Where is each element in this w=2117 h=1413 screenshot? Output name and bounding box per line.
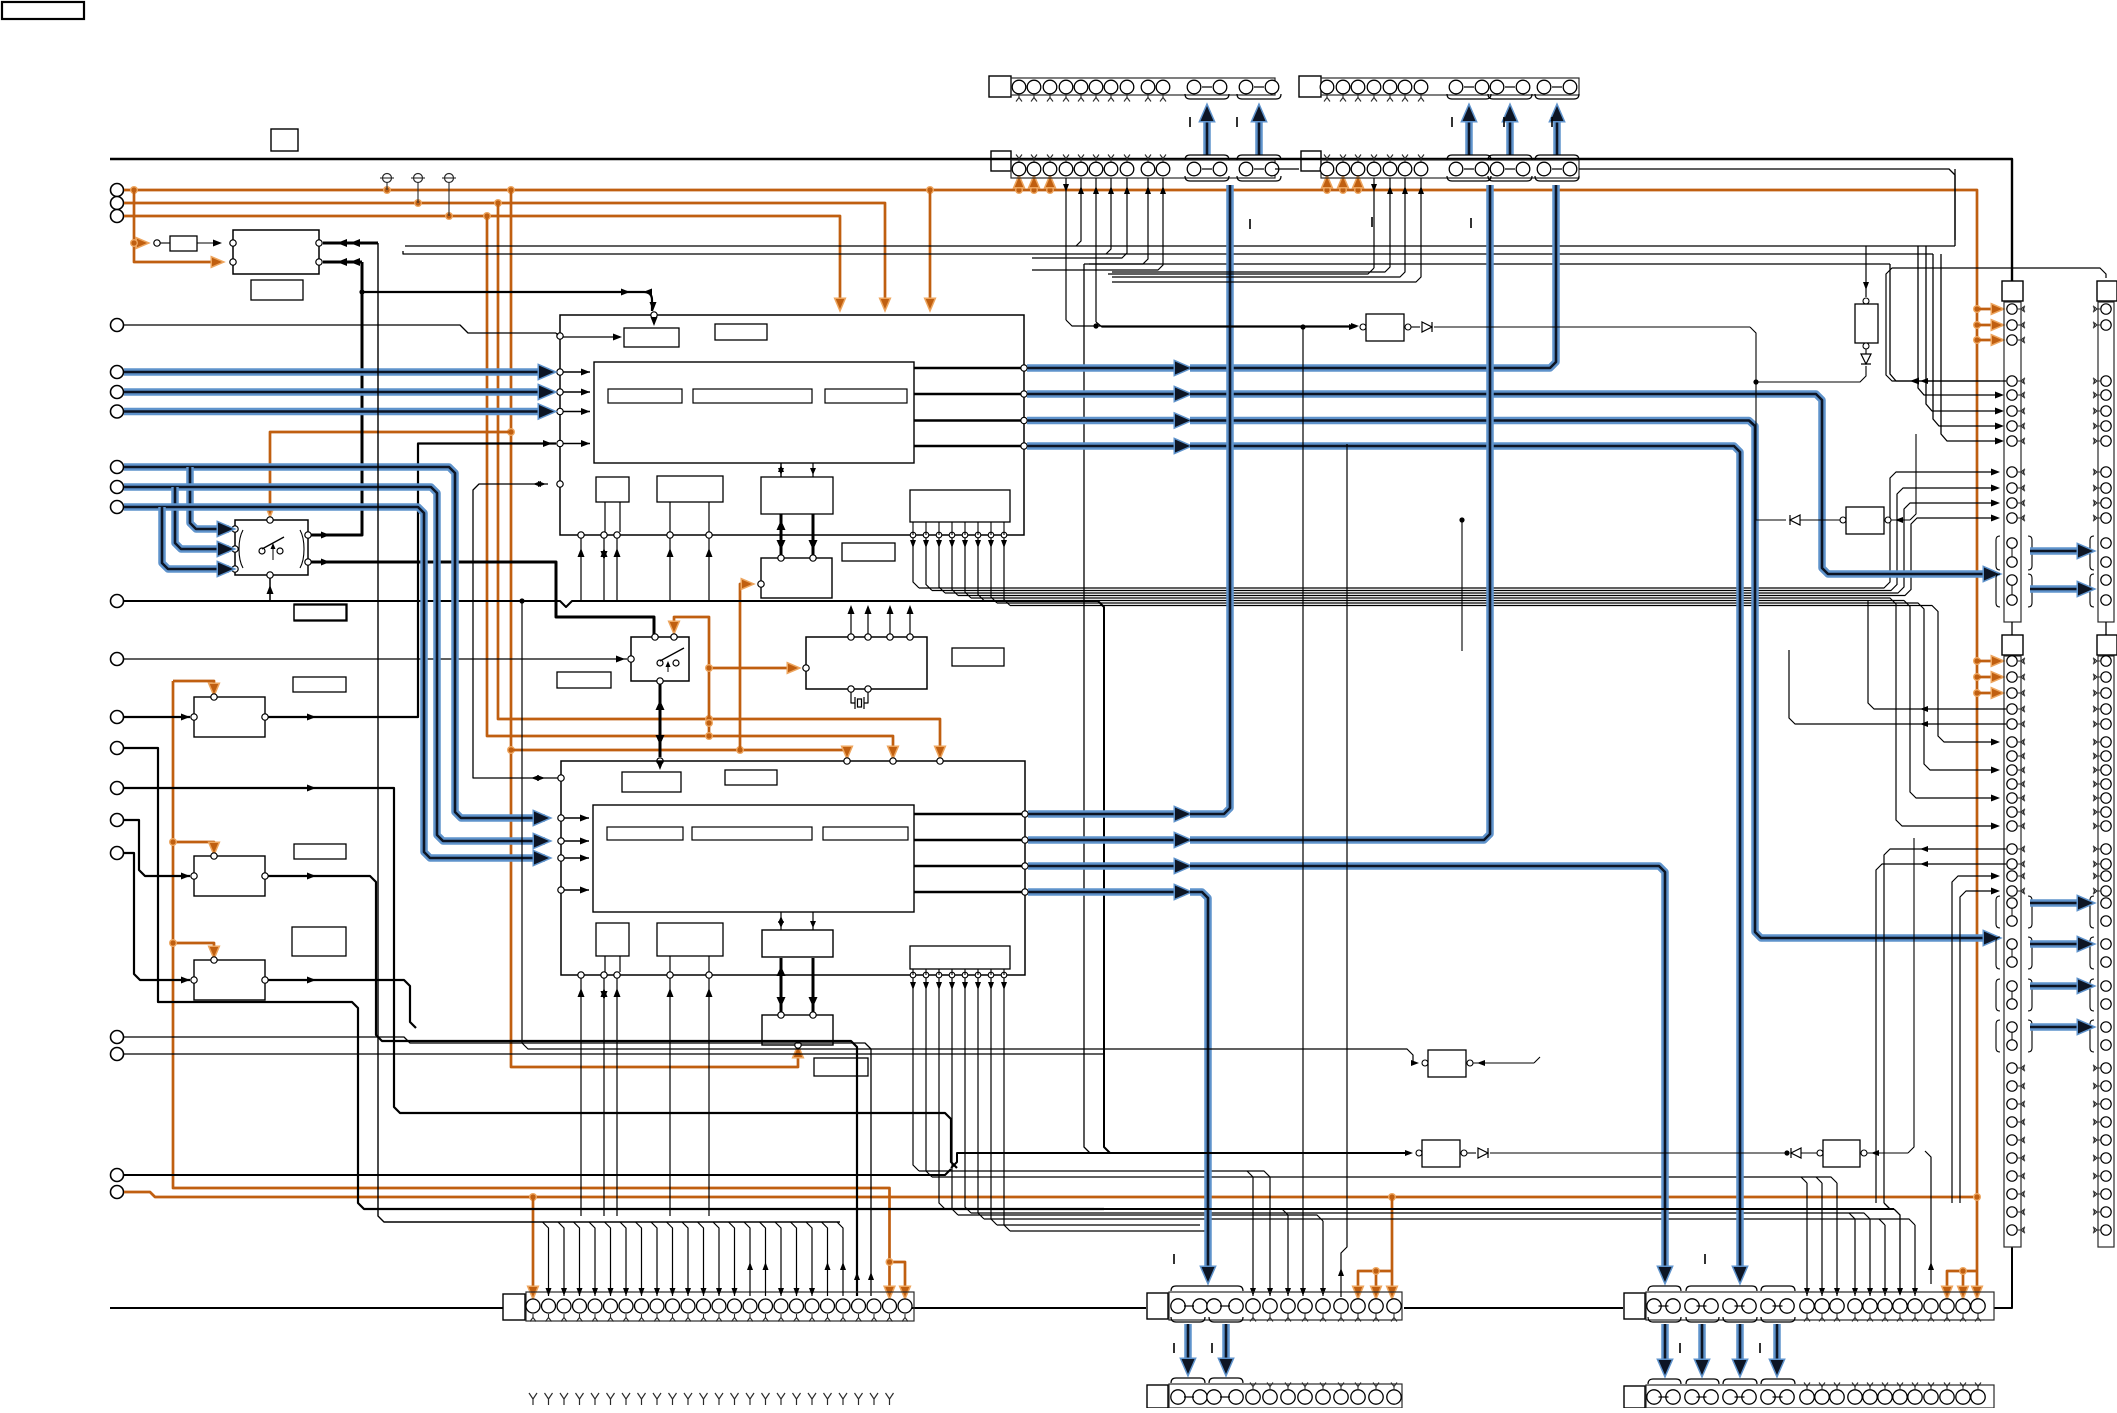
wire blue IC1 out3 to CN-A low <box>1027 414 1999 945</box>
inverter U9 with diode D6 <box>1791 838 1914 1167</box>
wire blue IN6 branch S1c <box>124 507 549 865</box>
IC2 pins left <box>558 815 589 894</box>
label A1 <box>293 677 346 692</box>
terminal T4 <box>111 319 124 332</box>
terminal T17 <box>111 847 124 860</box>
connector CN102 (top row1 group B) <box>1299 76 1579 102</box>
wire relay out2 <box>321 258 362 535</box>
terminal T19 <box>111 1048 124 1061</box>
wire dial link to IC1 <box>359 289 656 312</box>
IC1 box C <box>596 477 629 532</box>
relay K1 <box>230 230 322 274</box>
IC1 bottom edge pins <box>578 532 713 600</box>
IC2 box D <box>657 923 723 972</box>
wire A3 out <box>268 977 416 1029</box>
IC2 wide box pin fan <box>910 969 1918 1296</box>
wire CN202 drop lines <box>1108 178 1424 282</box>
IC2 pins top <box>844 758 943 764</box>
amp box A1 <box>191 694 268 737</box>
IC2 pin bidir <box>473 481 564 781</box>
wire T13 to A1 <box>124 714 190 721</box>
terminal T1 <box>111 184 124 197</box>
terminal T14 <box>111 742 124 755</box>
IC1 box B <box>715 324 767 340</box>
terminal T6 <box>111 386 124 399</box>
connector CN-BM1 (bottom middle row1) <box>1147 1286 1402 1322</box>
IC1 box E dsp <box>761 463 833 514</box>
wire CN201 drop lines <box>1032 178 1359 329</box>
level box U5 with diode D2 <box>1855 246 1878 372</box>
wire CN-A out left y709 <box>1789 600 2006 727</box>
wire CN-A out left y381 <box>1886 268 2106 384</box>
wire S1 out2 to mux S2 <box>311 559 654 635</box>
test point TP3 <box>442 174 456 217</box>
wire blue IN2 to IC1 <box>124 386 554 399</box>
IC1 wide box F <box>910 490 1010 522</box>
wire thick right elbow <box>1104 1203 1903 1296</box>
wire blue CN-BR links <box>1659 1324 1784 1375</box>
terminal T3 <box>111 210 124 223</box>
terminal T7 <box>111 405 124 418</box>
terminal T15 <box>111 782 124 795</box>
resistor R1 <box>154 236 222 251</box>
wire bus y264 <box>1084 264 2000 1153</box>
tick marks <box>1174 117 1760 1353</box>
wire CN-BR up line <box>1925 1151 1934 1284</box>
IC1 core <box>594 362 914 463</box>
wire T15 long path <box>124 785 957 1169</box>
amp box A2 <box>191 853 268 896</box>
wire orange vertical V3 feed H2 <box>487 216 897 757</box>
mux S2 <box>628 634 689 684</box>
IC2 box C <box>596 923 629 972</box>
connector CN202 (top row2 group B) <box>1301 151 1955 240</box>
wire T19 path <box>124 1053 1104 1055</box>
terminal T21 <box>111 1186 124 1199</box>
wire S1 common <box>267 578 274 601</box>
connector CN-BL (bottom left) <box>503 1292 914 1322</box>
terminal T18 <box>111 1031 124 1044</box>
test point TP1 <box>380 174 394 191</box>
label modem <box>814 1058 868 1076</box>
connector CN-A lower <box>1996 635 2032 1247</box>
wire blue IC1 out1 to CN row2 <box>1027 185 1556 375</box>
wire blue IC2 out3 to CN-BR <box>1028 860 1672 1283</box>
wire bus y254 <box>403 251 2004 445</box>
wire T17 to A3 <box>124 853 190 984</box>
IC2 main block <box>561 761 1025 975</box>
inverter U4 with diode D1 <box>1093 314 1866 514</box>
wire CN-A out left y849 <box>1876 846 2006 1203</box>
IC1 pins left <box>557 369 590 448</box>
Y pigtails row under CN-BL <box>529 1393 894 1405</box>
connector CN101 (top row1 group A) <box>989 76 1281 102</box>
wire T11 bus <box>124 601 1110 1153</box>
label S2 <box>557 672 611 688</box>
wire blue IN3 to IC1 <box>124 405 554 418</box>
wire blue IC1 out4 to CN-BR <box>1027 440 1747 1283</box>
label S1 <box>294 604 347 621</box>
inverter U7 with diode D4 (y1063) <box>519 598 1540 1077</box>
connector CN-BR2 (bottom right row2) <box>1624 1379 1994 1408</box>
label K1 <box>251 280 303 300</box>
IC2 pins right <box>914 811 1028 895</box>
terminal T8 <box>111 461 124 474</box>
wire blue IC2 out1 to CN row2 A <box>1028 185 1230 821</box>
terminal T11 <box>111 595 124 608</box>
label S1 upper <box>294 605 346 620</box>
wire orange branch to relay K1 <box>130 190 222 266</box>
DAA U3 <box>803 634 927 692</box>
wire orange branch to S1 <box>266 428 515 515</box>
terminal T5 <box>111 366 124 379</box>
terminal T2 <box>111 197 124 210</box>
wire orange to mux S2 and DAA <box>670 617 798 740</box>
wire blue IC1 out2 to CN-A <box>1027 388 1999 581</box>
wire orange line L1 (tip/ring bus) <box>124 177 2002 1297</box>
wire bundle to CN-BL <box>378 243 846 1296</box>
IC1 wide box pin fan <box>910 469 2000 830</box>
label A2 <box>294 844 346 859</box>
title box <box>2 2 84 19</box>
connector CN-BM2 (bottom middle row2) <box>1147 1378 1402 1408</box>
wire blue IN4 branch S1a <box>124 467 549 825</box>
inverter U8 with diode D5 (y1153) <box>951 1140 1790 1168</box>
connector CN-BR1 (bottom right row1) <box>1624 1286 1994 1322</box>
terminal T16 <box>111 814 124 827</box>
IC1 clock box <box>758 514 832 598</box>
switch S1 hook relay <box>232 517 311 578</box>
label U3 <box>952 648 1004 666</box>
IC2 box E <box>762 912 833 957</box>
wire blue IC2 out2 to CN row2 B <box>1028 185 1490 847</box>
terminal T20 <box>111 1169 124 1182</box>
inverter U6 with diode D3 <box>1459 434 1916 651</box>
wire A2 out <box>268 873 860 1297</box>
terminal T13 <box>111 711 124 724</box>
connector CN-B upper (right column B) <box>2090 281 2117 635</box>
wire blue IN5 branch S1b <box>124 487 549 848</box>
wire S1 out1 <box>311 532 362 539</box>
IC1 pins right <box>914 365 1027 449</box>
terminal T10 <box>111 501 124 514</box>
test point TP2 <box>411 174 425 204</box>
wire bottom bus <box>110 1247 2012 1308</box>
wire orange vertical V1 to modem <box>507 190 802 1067</box>
wire orange to clock box <box>740 580 752 750</box>
connector CN-B lower <box>2090 635 2117 1247</box>
wire orange bottom rail <box>124 1192 1981 1297</box>
IC1 box D <box>657 476 723 532</box>
wire CN-A in fans lower <box>1952 873 2000 1204</box>
wire blue CN-BM links <box>1182 1324 1233 1374</box>
wire T16 to A2 <box>124 820 190 880</box>
IC2 box B <box>725 770 777 785</box>
IC2 box A <box>622 772 681 792</box>
connector CN201 (top row2 group A) <box>991 151 1299 181</box>
wire T12 to mux <box>124 656 627 663</box>
terminal T12 <box>111 653 124 666</box>
connector CN-A upper (right column A) <box>1996 281 2032 635</box>
wire orange line L3 <box>124 212 844 309</box>
crystal X1 <box>851 692 868 709</box>
revision box <box>271 129 298 151</box>
wire A1 out to IC1 <box>268 440 556 721</box>
wire blue CN links row1-row2 <box>1201 106 1564 155</box>
wire mux common to IC2 <box>656 684 665 770</box>
IC2 bottom edge pins <box>578 972 713 1216</box>
IC2 modem box <box>762 958 833 1048</box>
IC1 main block <box>560 315 1024 535</box>
wire orange power rail left (to sub boxes) <box>169 681 909 1297</box>
wire T4 to IC1 <box>124 325 622 341</box>
IC2 wide box F <box>910 946 1010 969</box>
wire orange vertical V2 feed H1 <box>498 203 944 757</box>
terminal T9 <box>111 481 124 494</box>
wire x1303 long vertical <box>1300 324 1306 1296</box>
label IC1 clock <box>842 543 895 561</box>
wire top bus to CN column A <box>110 159 2012 281</box>
amp box A3 <box>191 957 268 1000</box>
wire orange H3 to IC2 <box>511 746 851 757</box>
wire relay out1 <box>323 239 378 247</box>
wire bus y246 <box>405 169 2004 415</box>
IC2 core <box>593 805 914 912</box>
IC1 box A <box>624 312 679 347</box>
wire blue IN1 to IC1 <box>124 366 554 379</box>
wire T18 path <box>124 1037 874 1296</box>
wire DAA top pins <box>848 605 914 634</box>
wire y1171 lines <box>912 1170 914 1172</box>
wire blue jumpers A to B <box>2030 545 2093 1034</box>
label A3 <box>292 927 346 956</box>
wire T20 to inverter line <box>124 1169 951 1175</box>
wire blue IC2 out4 to CN-BM <box>1028 886 1215 1283</box>
wire CN-BM up line <box>1338 444 1347 1297</box>
wire orange line L2 <box>124 199 889 309</box>
wire T14 long path <box>124 748 1104 1209</box>
